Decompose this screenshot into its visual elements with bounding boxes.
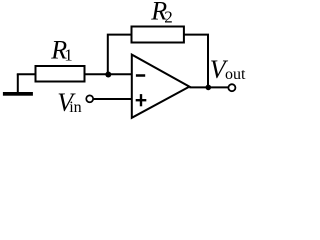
label R2	[150, 0, 173, 26]
wire: R1 right to op-amp inverting input	[84, 73, 132, 75]
node: output junction dot	[206, 85, 212, 91]
minus sign (inverting input)	[136, 74, 145, 77]
wire: R2 right down to output node	[184, 35, 209, 88]
label R1	[50, 35, 72, 64]
ground	[3, 74, 33, 95]
svg-text:out: out	[225, 66, 246, 83]
label Vout	[210, 55, 246, 84]
terminal Vout	[228, 84, 235, 91]
terminal Vin	[86, 95, 93, 102]
svg-text:2: 2	[164, 7, 173, 26]
label Vin	[57, 88, 81, 117]
wire: ground to R1 left	[17, 73, 36, 75]
node: junction dot at inverting input	[105, 72, 111, 78]
resistor R1	[36, 66, 85, 82]
resistor R2	[132, 27, 184, 43]
wire: feedback left leg up and over to R2	[108, 35, 132, 75]
plus sign (non-inverting input)	[136, 94, 147, 106]
svg-text:1: 1	[64, 46, 73, 65]
wire: Vin to non-inverting input	[93, 98, 131, 100]
op-amp U1	[132, 55, 190, 118]
svg-text:in: in	[69, 99, 81, 116]
wire: op-amp output to Vout terminal	[189, 86, 228, 88]
